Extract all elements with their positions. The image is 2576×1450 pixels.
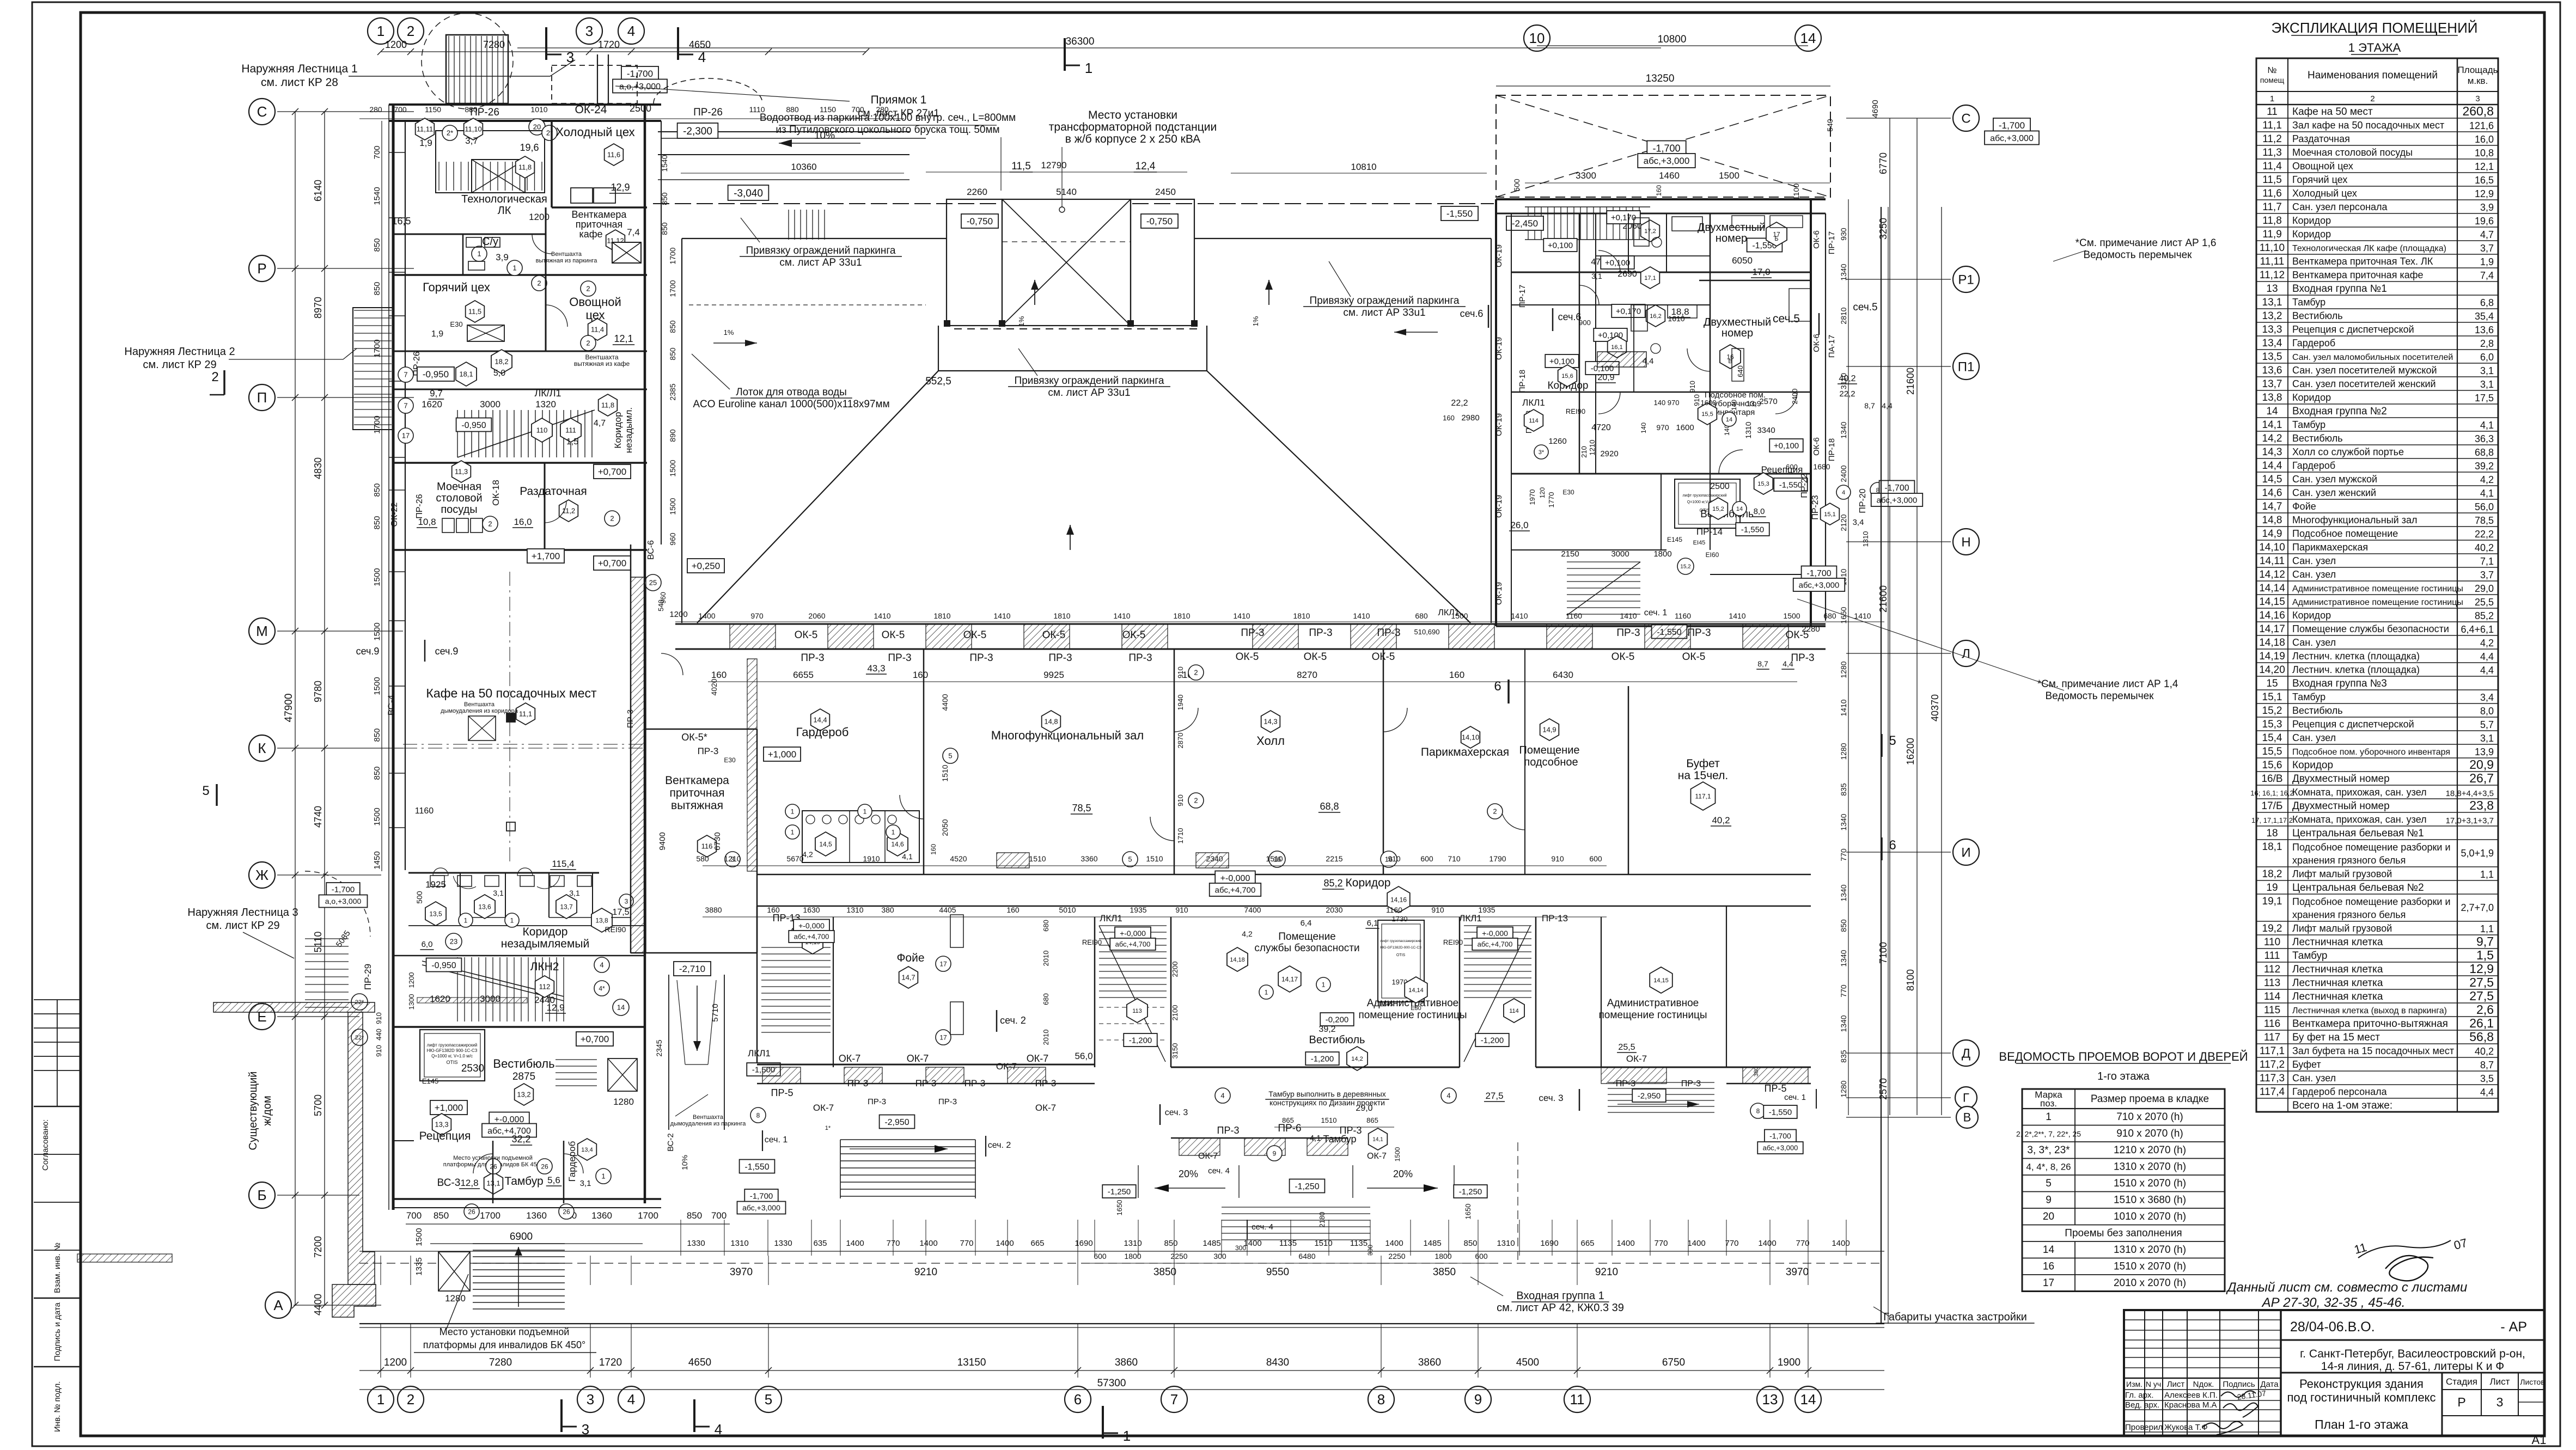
svg-text:+0,100: +0,100 [1605, 258, 1630, 267]
svg-text:ЛКН2: ЛКН2 [530, 960, 559, 973]
svg-text:47900: 47900 [283, 694, 295, 723]
svg-text:4: 4 [600, 961, 603, 969]
svg-text:2: 2 [407, 23, 414, 39]
svg-text:2: 2 [610, 515, 614, 523]
svg-text:Парикмахерская: Парикмахерская [1421, 746, 1509, 758]
svg-text:9,7: 9,7 [430, 388, 443, 399]
svg-text:Коридор: Коридор [2292, 215, 2331, 226]
svg-text:1510: 1510 [941, 764, 949, 781]
svg-text:1485: 1485 [1423, 1239, 1441, 1248]
svg-text:Тамбур: Тамбур [2292, 692, 2325, 702]
svg-text:850: 850 [373, 238, 382, 252]
svg-text:1260: 1260 [1548, 437, 1566, 446]
svg-text:7,4: 7,4 [627, 227, 640, 237]
svg-text:ЛК/Л1: ЛК/Л1 [534, 388, 561, 399]
svg-text:2010: 2010 [1042, 1030, 1050, 1045]
svg-text:Площадь: Площадь [2457, 65, 2498, 75]
svg-text:40,2: 40,2 [2475, 542, 2494, 553]
svg-text:Двухместный номер: Двухместный номер [2292, 773, 2390, 785]
svg-text:Коридор: Коридор [523, 926, 568, 938]
svg-text:1360: 1360 [526, 1210, 547, 1221]
svg-text:13,8: 13,8 [2262, 392, 2282, 403]
svg-text:15,3: 15,3 [2262, 719, 2282, 730]
svg-text:Алексеев К.П.: Алексеев К.П. [2164, 1391, 2218, 1400]
svg-text:помещ: помещ [2260, 76, 2285, 84]
svg-text:Наименования помещений: Наименования помещений [2308, 70, 2438, 81]
svg-text:11,10: 11,10 [465, 125, 482, 133]
svg-text:27,5: 27,5 [2469, 975, 2494, 989]
left wing east wall [644, 105, 646, 1203]
svg-text:8: 8 [756, 1111, 760, 1119]
svg-text:2: 2 [407, 1391, 414, 1408]
svg-text:3: 3 [587, 1391, 594, 1408]
svg-text:Буфет: Буфет [2292, 1059, 2321, 1070]
svg-text:160: 160 [1449, 670, 1464, 680]
svg-text:E30: E30 [1562, 488, 1574, 496]
svg-text:11,4: 11,4 [591, 326, 604, 334]
svg-text:ж/дом: ж/дом [261, 1096, 273, 1125]
svg-text:260,8: 260,8 [2462, 104, 2494, 118]
svg-text:абс,+4,700: абс,+4,700 [794, 933, 829, 941]
svg-text:3: 3 [625, 897, 628, 905]
service row [393, 351, 647, 352]
svg-text:1: 1 [1322, 981, 1326, 988]
svg-text:П: П [257, 389, 267, 406]
svg-text:Размер проема в кладке: Размер проема в кладке [2091, 1093, 2209, 1105]
svg-text:1935: 1935 [1130, 906, 1146, 914]
svg-text:9210: 9210 [1595, 1267, 1618, 1278]
svg-text:-1,250: -1,250 [1459, 1187, 1482, 1196]
svg-text:57300: 57300 [1097, 1378, 1126, 1389]
svg-text:14,17: 14,17 [1281, 975, 1298, 983]
svg-text:1810: 1810 [1293, 611, 1310, 620]
svg-text:13,5: 13,5 [429, 910, 442, 917]
svg-text:-0,950: -0,950 [431, 961, 456, 970]
svg-text:ПР-3: ПР-3 [1377, 627, 1400, 639]
svg-text:17, 17,1,17,2: 17, 17,1,17,2 [2251, 816, 2293, 824]
svg-text:910: 910 [375, 1012, 383, 1024]
svg-text:3,1: 3,1 [580, 1179, 591, 1188]
svg-text:Буфет: Буфет [1686, 757, 1720, 770]
svg-text:Коридор: Коридор [2292, 610, 2331, 621]
svg-text:+0,700: +0,700 [598, 558, 626, 568]
svg-text:Вестибюль: Вестибюль [493, 1057, 554, 1070]
svg-text:-1,250: -1,250 [1295, 1182, 1319, 1191]
svg-text:Сан. узел персонала: Сан. узел персонала [2292, 201, 2388, 212]
svg-text:15,2: 15,2 [2262, 705, 2282, 717]
svg-text:39,2: 39,2 [1318, 1025, 1335, 1034]
svg-text:-0,950: -0,950 [461, 421, 486, 430]
svg-text:17: 17 [2043, 1277, 2054, 1289]
svg-text:ПР-3: ПР-3 [868, 1097, 886, 1106]
svg-text:580: 580 [696, 854, 709, 863]
svg-text:ПР-3: ПР-3 [1309, 627, 1332, 639]
svg-text:Входная группа №2: Входная группа №2 [2292, 406, 2387, 417]
svg-text:3: 3 [585, 23, 593, 39]
svg-text:19,1: 19,1 [2262, 896, 2282, 907]
svg-text:-1,250: -1,250 [1108, 1187, 1131, 1196]
svg-text:9400: 9400 [658, 832, 667, 850]
svg-text:4,2: 4,2 [802, 850, 813, 859]
svg-text:13,2: 13,2 [2262, 310, 2282, 322]
svg-text:посуды: посуды [441, 504, 477, 516]
svg-text:1410: 1410 [874, 611, 890, 620]
svg-text:700: 700 [373, 145, 382, 159]
svg-text:П1: П1 [1958, 359, 1975, 374]
svg-text:2: 2 [2370, 94, 2374, 103]
svg-text:1280: 1280 [445, 1293, 466, 1304]
svg-text:7: 7 [404, 371, 407, 379]
svg-text:26: 26 [541, 1163, 548, 1170]
svg-text:11,5: 11,5 [2262, 174, 2282, 186]
svg-text:4720: 4720 [1591, 423, 1611, 432]
svg-text:665: 665 [1580, 1239, 1594, 1248]
lower band rooms [756, 906, 758, 1064]
svg-text:9925: 9925 [1043, 670, 1064, 680]
svg-text:552,5: 552,5 [925, 376, 951, 387]
svg-text:117,2: 117,2 [2260, 1059, 2285, 1070]
svg-text:280: 280 [369, 105, 382, 114]
svg-text:2180: 2180 [1318, 1212, 1326, 1228]
svg-text:9780: 9780 [313, 681, 323, 702]
svg-text:20,9: 20,9 [2469, 757, 2494, 772]
svg-text:Многофункциональный зал: Многофункциональный зал [991, 729, 1144, 742]
svg-text:3340: 3340 [1757, 426, 1775, 435]
svg-text:ОК-5: ОК-5 [1786, 629, 1809, 641]
svg-text:ВС-6: ВС-6 [646, 540, 656, 560]
svg-text:лифт грузопассажирский: лифт грузопассажирский [1380, 939, 1421, 943]
svg-text:4500: 4500 [1516, 1357, 1539, 1368]
svg-text:110: 110 [2264, 937, 2280, 948]
svg-text:116: 116 [701, 842, 713, 851]
svg-text:Габариты участка застройки: Габариты участка застройки [1883, 1311, 2027, 1323]
svg-text:ЛКЛ1: ЛКЛ1 [748, 1048, 771, 1059]
svg-text:18,2: 18,2 [2262, 868, 2282, 880]
svg-text:ПР-13: ПР-13 [1542, 913, 1568, 923]
svg-text:ПР-3: ПР-3 [1616, 627, 1640, 639]
svg-text:17/Б: 17/Б [2262, 800, 2283, 812]
svg-text:14,15: 14,15 [1653, 977, 1669, 984]
grid bubbles [368, 18, 394, 44]
svg-text:3,1: 3,1 [2480, 379, 2494, 390]
svg-text:ПР-3: ПР-3 [888, 652, 911, 664]
svg-text:2010 x 2070 (h): 2010 x 2070 (h) [2114, 1277, 2186, 1289]
svg-text:8,0: 8,0 [1754, 507, 1765, 516]
svg-text:Тамбур: Тамбур [2292, 297, 2325, 308]
svg-text:18,1: 18,1 [459, 370, 473, 378]
svg-text:1280: 1280 [1839, 743, 1848, 760]
svg-text:700: 700 [394, 105, 407, 114]
svg-text:1410: 1410 [1839, 699, 1848, 716]
svg-text:-1,700: -1,700 [332, 885, 355, 894]
svg-text:6,0: 6,0 [422, 940, 433, 949]
svg-text:в ж/б корпусе 2 x 250 кВА: в ж/б корпусе 2 x 250 кВА [1065, 133, 1200, 145]
svg-text:ПР-3: ПР-3 [1217, 1125, 1240, 1136]
svg-text:2260: 2260 [967, 187, 987, 197]
svg-text:Сан. узел: Сан. узел [2292, 732, 2336, 743]
svg-text:16/В: 16/В [2261, 773, 2282, 785]
svg-text:1 ЭТАЖА: 1 ЭТАЖА [2348, 41, 2401, 54]
svg-text:1: 1 [510, 916, 514, 924]
svg-text:Тамбур: Тамбур [504, 1175, 543, 1188]
svg-text:Гардероб персонала: Гардероб персонала [2292, 1086, 2388, 1097]
svg-text:11,1: 11,1 [2262, 120, 2282, 131]
right wing fixtures [1628, 213, 1629, 272]
svg-text:на 15чел.: на 15чел. [1678, 769, 1728, 782]
svg-text:5110: 5110 [313, 932, 323, 953]
svg-text:1510 x 2070 (h): 1510 x 2070 (h) [2114, 1178, 2186, 1189]
svg-text:14: 14 [1800, 30, 1816, 46]
svg-text:3360: 3360 [1081, 854, 1097, 863]
svg-text:Наружняя Лестница 2: Наружняя Лестница 2 [124, 346, 235, 358]
svg-text:1: 1 [512, 264, 516, 272]
svg-text:14-я линия, д. 57-61, литеры К: 14-я линия, д. 57-61, литеры К и Ф [2321, 1360, 2504, 1373]
svg-text:160: 160 [1655, 185, 1663, 196]
svg-text:Nдок.: Nдок. [2193, 1380, 2214, 1389]
svg-text:1700: 1700 [480, 1210, 500, 1221]
svg-text:10: 10 [1529, 30, 1545, 46]
svg-text:14,2: 14,2 [2262, 433, 2282, 444]
svg-text:850: 850 [373, 728, 382, 742]
svg-text:1510: 1510 [1146, 854, 1163, 863]
external stair 2 [353, 308, 393, 430]
svg-text:14: 14 [617, 1004, 625, 1012]
svg-text:3: 3 [2475, 94, 2480, 103]
svg-text:1: 1 [377, 23, 384, 39]
svg-text:Подсобное помещение разборки и: Подсобное помещение разборки и [2292, 842, 2451, 853]
svg-text:N уч: N уч [2146, 1380, 2161, 1388]
svg-text:5,0+1,9: 5,0+1,9 [2461, 848, 2494, 859]
svg-text:Приямок 1: Приямок 1 [871, 94, 927, 106]
svg-text:2100: 2100 [1171, 1005, 1179, 1021]
svg-text:770: 770 [1654, 1239, 1668, 1248]
svg-text:ПР-3: ПР-3 [915, 1078, 937, 1088]
svg-text:ОК-7: ОК-7 [996, 1061, 1017, 1072]
svg-text:2500: 2500 [630, 103, 651, 114]
svg-text:19,6: 19,6 [2475, 216, 2494, 227]
svg-text:18,1: 18,1 [2262, 841, 2282, 853]
svg-text:970: 970 [750, 611, 764, 620]
svg-text:ОК-7: ОК-7 [1626, 1054, 1647, 1064]
svg-text:см. лист КР 29: см. лист КР 29 [206, 920, 279, 932]
svg-text:14,9: 14,9 [1542, 726, 1556, 734]
svg-text:2810: 2810 [1839, 307, 1848, 324]
svg-text:ПР-3: ПР-3 [965, 1078, 986, 1088]
svg-text:25,5: 25,5 [2475, 597, 2494, 608]
svg-text:770: 770 [1839, 984, 1848, 998]
svg-text:1630: 1630 [803, 906, 820, 914]
svg-text:ОК-19: ОК-19 [1494, 582, 1504, 605]
svg-text:Р1: Р1 [1958, 272, 1974, 287]
svg-text:сеч. 4: сеч. 4 [1208, 1166, 1230, 1176]
svg-text:Холл со службой портье: Холл со службой портье [2292, 446, 2404, 457]
svg-text:ОК-19: ОК-19 [1494, 337, 1504, 360]
svg-text:1810: 1810 [1173, 611, 1190, 620]
svg-text:4520: 4520 [950, 854, 967, 863]
svg-text:111: 111 [2264, 950, 2280, 962]
svg-text:16,2: 16,2 [1650, 313, 1661, 320]
svg-text:39,2: 39,2 [2475, 461, 2494, 472]
svg-text:-1,550: -1,550 [1779, 480, 1803, 490]
svg-text:5: 5 [1128, 855, 1132, 864]
svg-text:1: 1 [377, 1391, 384, 1408]
svg-text:6730: 6730 [713, 832, 722, 850]
svg-text:5140: 5140 [1056, 187, 1077, 197]
pit priyamok 1 [552, 65, 637, 103]
svg-text:абс,+3,000: абс,+3,000 [1644, 156, 1690, 166]
svg-text:Сан. узел мужской: Сан. узел мужской [2292, 474, 2377, 485]
svg-text:10,8: 10,8 [2475, 148, 2494, 158]
svg-text:Двухместный номер: Двухместный номер [2292, 800, 2390, 812]
svg-text:Всего на 1-ом этаже:: Всего на 1-ом этаже: [2292, 1100, 2392, 1111]
svg-text:15,4: 15,4 [2262, 732, 2282, 744]
svg-text:+0,700: +0,700 [581, 1034, 609, 1044]
svg-text:20%: 20% [1393, 1168, 1413, 1179]
svg-text:1310 x 2070 (h): 1310 x 2070 (h) [2114, 1244, 2186, 1256]
svg-text:ПР-18: ПР-18 [1827, 438, 1836, 461]
external stair 1 [446, 35, 508, 103]
svg-text:114: 114 [1509, 1008, 1519, 1014]
svg-text:см. лист АР 33u1: см. лист АР 33u1 [779, 257, 862, 268]
svg-text:дымоудаления из паркинга: дымоудаления из паркинга [670, 1121, 747, 1127]
svg-text:1200: 1200 [407, 972, 416, 988]
svg-text:Овощной цех: Овощной цех [2292, 161, 2353, 172]
svg-text:-1,700: -1,700 [1652, 143, 1680, 154]
svg-text:11,11: 11,11 [2260, 256, 2285, 267]
svg-text:14,6: 14,6 [891, 840, 904, 848]
svg-text:2400: 2400 [1791, 389, 1799, 405]
svg-text:номер: номер [1716, 233, 1747, 244]
svg-text:+-0,000: +-0,000 [495, 1115, 524, 1124]
svg-text:117,1: 117,1 [1695, 792, 1711, 800]
svg-text:15,5: 15,5 [1701, 411, 1713, 418]
svg-text:ЛКЛ1: ЛКЛ1 [1459, 913, 1482, 923]
svg-text:14,3: 14,3 [2262, 446, 2282, 458]
svg-text:2050: 2050 [941, 819, 949, 836]
svg-text:15,6: 15,6 [2262, 760, 2282, 771]
svg-text:20: 20 [2043, 1211, 2054, 1222]
svg-text:68,8: 68,8 [1320, 801, 1339, 812]
svg-text:1730: 1730 [1392, 915, 1408, 923]
svg-text:Холл: Холл [1256, 734, 1285, 748]
svg-text:2400: 2400 [1839, 465, 1848, 482]
svg-text:4,1: 4,1 [2480, 488, 2494, 499]
svg-text:1410: 1410 [1233, 611, 1250, 620]
svg-text:770: 770 [1839, 848, 1848, 861]
svg-text:Административное: Административное [1607, 998, 1699, 1009]
svg-text:-1,700: -1,700 [1806, 569, 1831, 578]
svg-text:140 970: 140 970 [1654, 399, 1680, 407]
svg-text:19,6: 19,6 [520, 142, 539, 153]
svg-text:1500: 1500 [1783, 611, 1800, 620]
svg-text:7200: 7200 [313, 1236, 323, 1258]
svg-text:Изм.: Изм. [2126, 1380, 2142, 1388]
svg-text:1620: 1620 [430, 994, 450, 1004]
svg-text:Б: Б [1774, 236, 1778, 242]
svg-text:114: 114 [1529, 418, 1539, 424]
svg-text:14,14: 14,14 [2259, 583, 2285, 594]
svg-text:кафе: кафе [579, 229, 602, 240]
svg-text:вытяжная из кафе: вытяжная из кафе [574, 360, 630, 368]
svg-text:1800: 1800 [1434, 1252, 1451, 1261]
svg-text:Вестибюль: Вестибюль [2292, 433, 2343, 444]
svg-text:5010: 5010 [1059, 906, 1076, 914]
svg-text:1: 1 [464, 916, 468, 924]
svg-text:Вестибюль: Вестибюль [1309, 1034, 1365, 1046]
svg-text:4690: 4690 [1871, 100, 1880, 118]
svg-text:11,1: 11,1 [519, 710, 532, 718]
svg-text:8270: 8270 [1297, 670, 1317, 680]
svg-text:14: 14 [1800, 1391, 1816, 1408]
svg-text:14,8: 14,8 [2262, 515, 2282, 526]
svg-text:1700: 1700 [668, 247, 677, 264]
svg-text:1%: 1% [1252, 316, 1260, 326]
svg-text:680: 680 [1042, 920, 1050, 932]
svg-text:17,2: 17,2 [1644, 228, 1656, 235]
svg-text:ВЕДОМОСТЬ ПРОЕМОВ ВОРОТ И ДВЕР: ВЕДОМОСТЬ ПРОЕМОВ ВОРОТ И ДВЕРЕЙ [1999, 1050, 2248, 1063]
svg-text:7: 7 [1170, 1391, 1178, 1408]
svg-text:А1: А1 [2532, 1433, 2547, 1447]
svg-text:Стадия: Стадия [2446, 1376, 2477, 1387]
svg-text:600: 600 [1420, 854, 1433, 863]
svg-text:незадымл.: незадымл. [624, 407, 634, 453]
svg-text:В: В [1963, 1111, 1971, 1124]
svg-text:6: 6 [1494, 679, 1501, 694]
svg-text:2: 2 [586, 285, 590, 293]
svg-text:Проемы без заполнения: Проемы без заполнения [2065, 1228, 2182, 1239]
svg-text:4,4: 4,4 [2480, 665, 2494, 676]
svg-text:ПР-3: ПР-3 [1791, 652, 1814, 664]
svg-text:E30: E30 [450, 320, 462, 328]
svg-text:-1,550: -1,550 [744, 1163, 769, 1172]
svg-text:1410: 1410 [1620, 611, 1637, 620]
svg-text:1410: 1410 [1353, 611, 1370, 620]
svg-text:-2,950: -2,950 [884, 1118, 909, 1127]
svg-text:16,5: 16,5 [392, 216, 411, 227]
svg-text:3: 3 [582, 1421, 589, 1437]
svg-text:ОК-5: ОК-5 [1611, 651, 1635, 663]
svg-text:890: 890 [668, 429, 677, 442]
svg-text:1770: 1770 [1547, 492, 1555, 508]
svg-text:Гардероб: Гардероб [796, 725, 849, 739]
svg-text:Водоотвод из паркинга 100x100: Водоотвод из паркинга 100x100 внутр. сеч… [760, 112, 1016, 124]
svg-text:770: 770 [1796, 1239, 1809, 1248]
svg-text:Сан. узел маломобильных посети: Сан. узел маломобильных посетителей [2292, 353, 2453, 362]
svg-text:5670: 5670 [786, 854, 803, 863]
svg-text:1410: 1410 [1854, 611, 1871, 620]
svg-text:1330: 1330 [774, 1239, 792, 1248]
svg-text:подсобное: подсобное [1524, 756, 1578, 768]
svg-text:Многофункциональный зал: Многофункциональный зал [2292, 515, 2417, 525]
svg-text:1,1: 1,1 [2480, 923, 2494, 934]
svg-text:3000: 3000 [480, 399, 500, 409]
svg-text:1400: 1400 [846, 1239, 864, 1248]
svg-text:ОК-7: ОК-7 [1035, 1103, 1056, 1113]
svg-text:Сан. узел: Сан. узел [2292, 1073, 2336, 1084]
svg-text:14,17: 14,17 [2259, 623, 2285, 635]
svg-text:12,9: 12,9 [611, 182, 630, 193]
svg-text:113: 113 [2264, 977, 2280, 989]
svg-text:сеч.9: сеч.9 [435, 646, 459, 657]
svg-text:6655: 6655 [793, 670, 814, 680]
svg-text:14,16: 14,16 [1390, 896, 1407, 903]
svg-text:Холодный цех: Холодный цех [556, 125, 634, 139]
svg-text:дымоудаления из коридора: дымоудаления из коридора [441, 708, 518, 714]
svg-text:1340: 1340 [1839, 884, 1848, 901]
svg-text:14: 14 [2043, 1244, 2055, 1256]
svg-text:1720: 1720 [599, 1357, 622, 1368]
svg-text:Согласовано:: Согласовано: [41, 1119, 50, 1171]
